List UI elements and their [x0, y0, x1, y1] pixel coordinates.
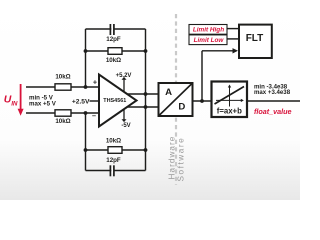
svg-text:10kΩ: 10kΩ: [55, 74, 70, 81]
svg-text:+2.5V: +2.5V: [72, 98, 90, 105]
svg-text:D: D: [178, 101, 185, 112]
svg-text:12pF: 12pF: [106, 36, 121, 43]
svg-text:10kΩ: 10kΩ: [106, 138, 121, 145]
svg-text:max +3.4e38: max +3.4e38: [254, 89, 291, 96]
svg-text:10kΩ: 10kΩ: [106, 57, 121, 64]
svg-text:THS4561: THS4561: [103, 98, 126, 104]
svg-text:–: –: [92, 111, 96, 120]
svg-text:10kΩ: 10kΩ: [55, 118, 70, 125]
svg-text:IN: IN: [11, 100, 18, 107]
svg-text:FLT: FLT: [246, 33, 264, 44]
svg-text:A: A: [165, 87, 172, 98]
svg-text:Limit Low: Limit Low: [194, 37, 225, 44]
svg-text:+: +: [93, 78, 97, 87]
svg-text:Software: Software: [177, 137, 186, 182]
svg-text:max +5 V: max +5 V: [29, 101, 57, 108]
svg-text:-5V: -5V: [121, 123, 130, 129]
svg-text:f=ax+b: f=ax+b: [217, 107, 242, 116]
svg-text:Hardware: Hardware: [168, 136, 177, 180]
svg-text:+5.2V: +5.2V: [116, 73, 132, 79]
svg-text:12pF: 12pF: [106, 157, 121, 164]
svg-text:Limit High: Limit High: [193, 27, 224, 34]
svg-text:float_value: float_value: [254, 107, 292, 116]
